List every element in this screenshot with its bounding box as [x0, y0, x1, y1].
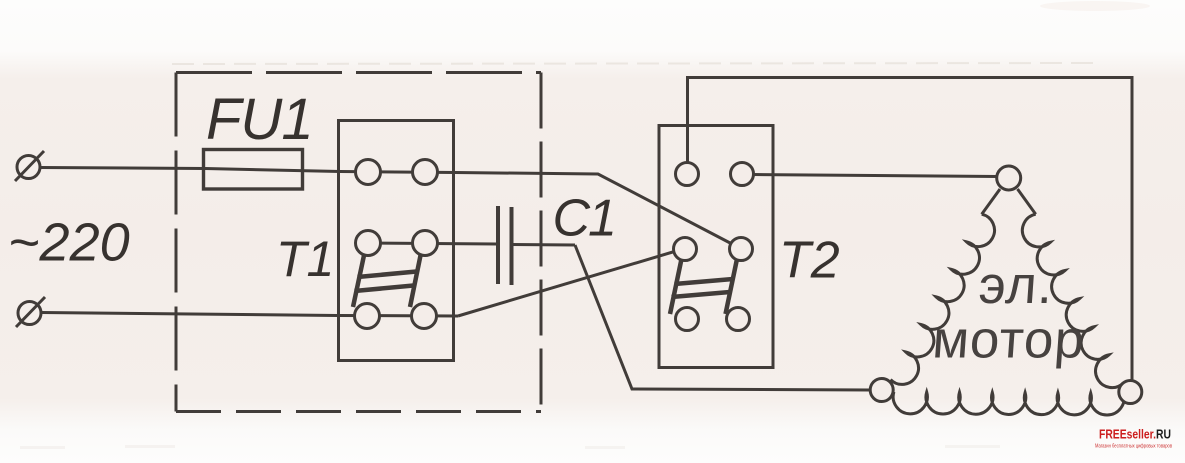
- wire C1 right plate to bend: [512, 243, 576, 247]
- capacitor C1 left plate: [496, 206, 500, 284]
- dashed enclosure box left edge: [175, 73, 178, 412]
- dashed enclosure box bottom edge: [176, 410, 541, 413]
- T1 top-right contact: [413, 160, 438, 185]
- T2 top-left contact: [676, 163, 699, 186]
- wire through fuse FU1: [205, 169, 340, 172]
- svg-text:C1: C1: [553, 190, 615, 248]
- fuse FU1 body: [204, 150, 303, 190]
- wire bottom feed: terminal X2 to switch T1 bottom contacts: [41, 313, 458, 317]
- T2 bottom-left contact: [676, 308, 699, 331]
- wire T1 bottom row to T2 middle-left contact (diagonal): [458, 252, 675, 317]
- wire top feed: terminal X1 to fuse FU1: [40, 168, 205, 169]
- T1 bottom-left contact: [355, 304, 380, 329]
- svg-text:~220: ~220: [8, 213, 130, 273]
- motor M1 winding left side (scalloped): [891, 214, 995, 384]
- motor apex links from top terminal: [982, 189, 1036, 214]
- wire T2 top-left contact riser to top rail: [688, 78, 1133, 382]
- T2 middle-left contact: [674, 238, 697, 261]
- motor bottom-right terminal: [1119, 381, 1142, 404]
- terminal X1 (phase input): [15, 151, 44, 181]
- T2 movable contact arms with coupling ladder: [670, 259, 737, 314]
- motor M1 winding bottom side (scalloped): [893, 392, 1124, 415]
- svg-text:T2: T2: [779, 232, 840, 290]
- T2 top-right contact: [731, 163, 754, 186]
- dashed enclosure box right edge: [540, 73, 543, 412]
- T1 movable contact arms with coupling ladder: [353, 253, 421, 307]
- motor bottom-left terminal: [870, 379, 893, 402]
- svg-text:FU1: FU1: [206, 87, 313, 152]
- motor M1 winding right side (scalloped): [1022, 214, 1123, 387]
- wire T2 top-right contact to motor top terminal: [753, 175, 998, 177]
- wire T1 middle row to capacitor C1: [368, 243, 497, 244]
- T2 bottom-right contact: [727, 308, 750, 331]
- svg-text:мотор: мотор: [931, 311, 1087, 370]
- capacitor C1 right plate: [510, 207, 514, 285]
- motor top terminal: [997, 166, 1021, 190]
- wire C1 diagonal down to motor bottom rail: [575, 245, 871, 390]
- T2 middle-right contact: [730, 238, 753, 261]
- svg-text:T1: T1: [276, 231, 334, 287]
- terminal X2 (neutral input): [16, 297, 45, 327]
- wire top to T2: horizontal then diagonal into T2 middle-right contact: [455, 173, 733, 245]
- dashed enclosure box (switch unit) top edge: [176, 71, 541, 74]
- switch T1 body: [339, 121, 454, 361]
- label эл. мотор: [931, 256, 1091, 369]
- switch T2 body: [659, 126, 773, 368]
- T1 middle-right contact: [413, 231, 438, 256]
- svg-text:FREEseller.RU: FREEseller.RU: [1099, 428, 1171, 442]
- wire T1 top row (through top contacts): [340, 172, 455, 173]
- T1 bottom-right contact: [412, 304, 437, 329]
- T1 top-left contact: [356, 160, 381, 185]
- svg-text:эл.: эл.: [977, 256, 1056, 315]
- svg-text:Магазин бесплатных цифровых то: Магазин бесплатных цифровых товаров: [1095, 444, 1172, 450]
- T1 middle-left contact: [356, 231, 381, 256]
